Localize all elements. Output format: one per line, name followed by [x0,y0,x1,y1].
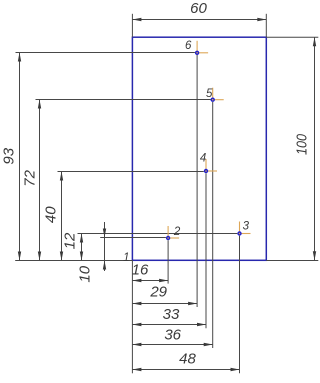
svg-text:3: 3 [243,221,250,233]
dimension 60 [132,0,266,21]
extension line left edge extended [131,260,133,373]
dimension 100 extension lines [266,37,318,260]
dimension 72 [22,100,42,261]
svg-text:60: 60 [190,0,207,17]
dimension 29 [132,284,197,306]
dimension 93 extension line [16,52,195,54]
dimension 12 extension line [78,233,238,235]
svg-text:10: 10 [77,265,94,282]
svg-text:6: 6 [185,40,192,52]
extension line from point 6 [196,55,198,307]
extension line from point 5 [212,102,214,348]
svg-text:48: 48 [179,350,196,367]
svg-text:36: 36 [164,326,181,343]
dimension 10 extension line [100,237,166,239]
point 2 [167,226,180,240]
dimension 40 [43,172,64,261]
svg-text:33: 33 [163,306,180,323]
extension line from point 2 [167,240,169,283]
svg-text:4: 4 [200,153,206,165]
point 4 [205,159,218,173]
dimension 48 [132,350,239,371]
point 5 [211,88,224,102]
part outline rectangle [132,37,266,260]
dimension 93 [1,53,22,261]
svg-text:29: 29 [149,284,167,301]
svg-text:93: 93 [1,147,18,164]
svg-text:2: 2 [173,226,181,238]
label point 6 [185,40,192,52]
svg-text:16: 16 [132,261,149,278]
dimension 100 [294,37,317,260]
extension line from point 4 [205,173,207,328]
label point 3 [243,221,250,233]
point 6 [196,41,209,55]
dimension 36 [132,326,212,346]
svg-text:100: 100 [294,133,311,155]
dimension 72 extension line [36,99,211,101]
svg-text:12: 12 [61,232,78,249]
bottom reference extension line [15,260,132,262]
dimension 40 extension line [58,171,204,173]
svg-text:40: 40 [43,206,60,223]
label point 1 [123,252,129,264]
svg-text:5: 5 [206,88,213,100]
svg-text:1: 1 [123,252,129,264]
extension line from point 3 [239,236,241,374]
dimension 16 [132,261,168,282]
label point 4 [200,153,206,165]
point 3 [238,222,251,236]
dimension 60 extension lines [132,14,266,37]
dimension 10 [77,222,107,283]
dimension 33 [132,306,206,326]
dimension 12 [61,232,83,260]
label point 5 [206,88,213,100]
label point 2 [173,226,181,238]
svg-text:72: 72 [22,169,39,186]
